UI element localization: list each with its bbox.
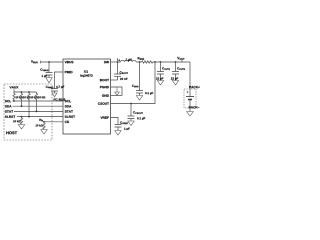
battery pack dashed box [184,89,196,108]
ground (C_PMID) [52,93,57,97]
ground (C_VBUS) [46,78,52,83]
node PACK+ label [189,86,200,88]
U1 refdes [84,70,88,72]
wire PMID [55,72,64,89]
junction RSNS right node [154,61,156,63]
pin VBUS label [65,61,74,63]
wire CD [44,121,63,123]
resistor R_B pulldown CD 10k [43,122,45,130]
node VOUT supply label [177,57,184,60]
wire GND [111,95,123,97]
resistor R_SNS [142,61,154,63]
junction COUT1 node [160,61,162,63]
junction SCL pullup [13,100,15,102]
node SCL label [5,100,11,102]
pin BOOT label [100,79,109,81]
junction SLRST pullup [28,116,30,118]
capacitor C_VBUS [46,62,53,78]
node SDA label [5,105,12,107]
junction VBUS node [48,61,50,63]
pin GND label [102,94,109,96]
node VAUX supply label [10,86,19,88]
wire SCL [13,100,64,102]
wire SDA [13,105,64,107]
junction VAUX rail t2 [28,91,30,93]
wire CSOUT [111,62,156,104]
wire RSNS to VOUT [154,61,191,63]
wire SLRST [17,116,63,118]
wire inductor to RSNS [136,61,141,63]
junction CD pulldown [43,121,45,123]
ground (C_VREF) [115,131,121,136]
capacitor C_BOOT [114,62,121,80]
pin STAT label [65,110,73,112]
pin SLRST label [65,116,75,118]
pin SW label [104,61,109,63]
capacitor C_SNS [136,62,143,96]
capacitor C_CSOUT [128,104,135,122]
capacitor C_OUT1 [157,62,164,81]
pin SCL label [65,100,71,102]
wire VOUT tick [181,60,183,62]
wire VAUX rail [14,89,37,92]
wire PGND [111,87,123,96]
junction SLRST pulldown [21,116,23,118]
capacitor C_VREF [115,125,122,131]
battery BT1 [186,96,194,98]
capacitor C_PMID [51,89,58,94]
U1 part number [81,74,93,77]
ground (C_CSOUT) [128,121,134,126]
junction L1/RSNS node [139,61,141,63]
capacitor C_OUT2 [172,62,179,81]
battery plus sign [186,91,188,93]
junction SW node [117,61,119,63]
pin VREF label [100,116,108,118]
node STAT label [5,110,13,112]
wire BOOT [111,79,118,81]
resistor R pullup STAT 10k [28,92,30,117]
node HOST label [6,131,17,134]
node PACK- label [189,106,200,108]
resistor R pulldown SLRST 10k [20,117,22,125]
pin SDA label [65,105,72,107]
junction VAUX rail t1 [21,91,23,93]
node I2C BUS label [54,98,66,100]
inductor L1 [120,60,136,62]
ground (CD pulldown) [41,130,47,135]
ground (PGND arrow) [115,87,120,95]
junction COUT2 node [175,61,177,63]
junction CSOUT cap [130,103,132,105]
wire STAT [14,110,63,112]
node VBUS supply label [31,60,38,63]
node SLRST label [5,116,15,118]
wire SW to inductor [111,61,121,63]
ground (C_OUT2) [172,81,178,86]
junction STAT pullup [36,111,38,113]
junction SDA pullup [21,105,23,107]
ground (PACK) [187,112,194,117]
wire VBUS to chip [41,61,63,64]
wire VOUT to PACK [189,62,191,97]
ground (C_OUT1) [157,81,163,86]
pin CSOUT label [98,102,109,104]
pin CD label [65,121,69,123]
wire battery to ground [189,100,191,112]
ground (SLRST pulldown) [18,125,24,130]
resistor R pullup SCL 10k [13,92,15,101]
ground (C_SNS) [136,96,142,101]
resistor R pullup SLRST 10k [35,92,37,111]
resistor R pullup SDA 10k [20,92,22,106]
host dashed box [4,84,52,140]
pin PGND label [100,86,109,88]
pin PMID label [65,71,73,73]
wire VREF [111,118,119,125]
IC U1 charger chip body [63,59,111,134]
